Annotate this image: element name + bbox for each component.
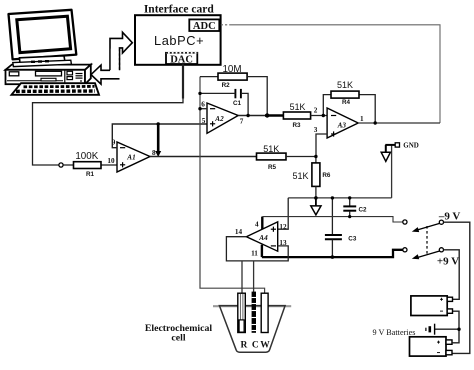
svg-text:51K: 51K [263, 144, 279, 154]
svg-text:5: 5 [202, 117, 206, 125]
wire A2 output to R3 [238, 115, 265, 117]
electrochemical cell beaker rim [213, 305, 291, 307]
wire +9V to battery1 top [444, 250, 460, 299]
node A1 feedback junction [157, 122, 160, 125]
svg-text:GND: GND [403, 141, 419, 149]
svg-text:10M: 10M [222, 64, 241, 75]
op-amp A2 [201, 101, 244, 134]
wire ground bus [288, 197, 391, 199]
wire C1 right drop to A2 output [241, 93, 248, 115]
wire GND riser [391, 145, 393, 198]
capacitor C2 [343, 198, 367, 217]
wire A4 supply pin 11 [261, 245, 263, 257]
svg-text:C2: C2 [358, 207, 367, 214]
wire A3 output to right [358, 122, 440, 124]
svg-text:9 V Batteries: 9 V Batteries [373, 328, 416, 337]
svg-text:–9 V: –9 V [438, 210, 461, 222]
svg-text:6: 6 [201, 101, 205, 109]
computer (PC clip-art) [6, 10, 100, 95]
svg-text:cell: cell [171, 333, 185, 344]
svg-text:C3: C3 [348, 236, 357, 243]
battery cell symbol [426, 324, 435, 335]
svg-text:100K: 100K [75, 151, 98, 162]
GND terminal [385, 141, 419, 149]
svg-text:R3: R3 [292, 122, 301, 129]
svg-text:ADC: ADC [193, 21, 216, 32]
wire C1 left [200, 92, 235, 94]
wire A2 minus input stub [200, 108, 207, 110]
block arrow card to computer [91, 49, 120, 85]
node junction dots [198, 92, 460, 331]
switch S2 (+9V) [403, 248, 459, 268]
wire drop to electrode R [241, 261, 243, 294]
svg-text:51K: 51K [290, 102, 306, 112]
switch S1 (-9V) [403, 210, 461, 232]
svg-text:R6: R6 [322, 172, 331, 179]
ground at GND terminal [381, 145, 390, 161]
svg-text:R1: R1 [86, 171, 95, 178]
svg-text:A3: A3 [337, 121, 347, 129]
svg-text:12: 12 [279, 223, 287, 231]
svg-text:C: C [252, 341, 259, 351]
svg-text:R: R [240, 341, 247, 351]
wire A1 output to R5 [150, 156, 257, 158]
wire R2 right drop to A2 output [247, 77, 267, 116]
svg-text:A2: A2 [214, 115, 224, 123]
wire -9V to battery stack bottom [444, 222, 470, 353]
capacitor C3 [325, 198, 357, 257]
wire +9V rail (thick) [262, 250, 403, 257]
op-amp A3 [314, 107, 364, 139]
wire R5 to junction [286, 156, 316, 158]
wire battery1 bottom to battery2 top [453, 311, 459, 343]
wire working electrode: long vertical from A2 minus node down to cell W [200, 77, 265, 294]
node input terminal circle [59, 163, 63, 167]
wire A3 plus input from R5/R6 junction [316, 134, 327, 157]
switch gang dashed link [426, 226, 428, 256]
resistor R5 51K [257, 144, 287, 171]
wire thick feedback drop onto A1 output [157, 124, 160, 152]
wire -9V rail [262, 217, 402, 222]
svg-text:2: 2 [314, 107, 318, 115]
wire R1 to A1 plus input [63, 164, 117, 166]
ADC block [189, 19, 219, 31]
resistor R1 100K [74, 151, 102, 178]
wire DAC down-left-down to R1 input [33, 64, 184, 165]
svg-text:3: 3 [314, 126, 318, 134]
svg-text:DAC: DAC [170, 55, 193, 66]
svg-text:A1: A1 [126, 154, 135, 162]
wire R3 to A3 minus input [311, 115, 328, 117]
battery B1 (9V) [411, 296, 453, 316]
electrode R (reference) [238, 293, 246, 332]
op-amp A1 [107, 139, 156, 173]
electrode C (counter) [252, 292, 256, 333]
svg-text:R5: R5 [268, 164, 277, 171]
svg-text:Interface card: Interface card [144, 4, 215, 16]
interface card box [135, 4, 221, 65]
wire battery midpoint tap [435, 328, 459, 330]
svg-text:R2: R2 [222, 82, 231, 89]
battery B2 (9V) [410, 337, 453, 356]
svg-text:11: 11 [251, 250, 258, 258]
svg-text:51K: 51K [292, 171, 308, 181]
svg-text:51K: 51K [337, 80, 353, 90]
svg-text:C1: C1 [233, 100, 242, 107]
wire A4 supply pin 4 [261, 217, 263, 230]
ground at R6 bottom [311, 198, 321, 215]
DAC block [166, 53, 197, 66]
svg-text:7: 7 [240, 118, 244, 126]
capacitor C1 [233, 89, 242, 107]
resistor R2 10M [218, 64, 247, 89]
wire R4 feedback loop [323, 95, 331, 116]
wire A1 feedback: minus input up and right to A2 plus input [112, 124, 207, 148]
svg-text:W: W [260, 341, 270, 351]
svg-text:A4: A4 [258, 234, 268, 242]
svg-text:14: 14 [235, 228, 243, 236]
block arrow computer to card [110, 32, 132, 70]
wire A4 pin12 to ground bus [278, 198, 289, 229]
svg-text:+9 V: +9 V [437, 256, 459, 268]
wire A4 output/pin13 loop to electrodes [226, 237, 288, 261]
resistor R6 51K vertical [292, 157, 330, 198]
wire ADC to A3 output (dashed at ADC then long line right and down) [221, 25, 440, 123]
svg-text:R4: R4 [342, 99, 351, 106]
svg-text:1: 1 [360, 115, 364, 123]
electrochemical cell beaker [219, 306, 285, 353]
svg-text:4: 4 [255, 221, 259, 229]
electrode W (working) [261, 293, 268, 332]
resistor R4 51K [331, 80, 359, 106]
op-amp A4 (points left) [235, 221, 287, 258]
wire drop to electrode C [253, 261, 255, 292]
wire R2 left [200, 76, 218, 78]
resistor R3 51K [283, 102, 310, 129]
svg-text:10: 10 [107, 157, 115, 165]
svg-text:LabPC+: LabPC+ [154, 33, 204, 48]
